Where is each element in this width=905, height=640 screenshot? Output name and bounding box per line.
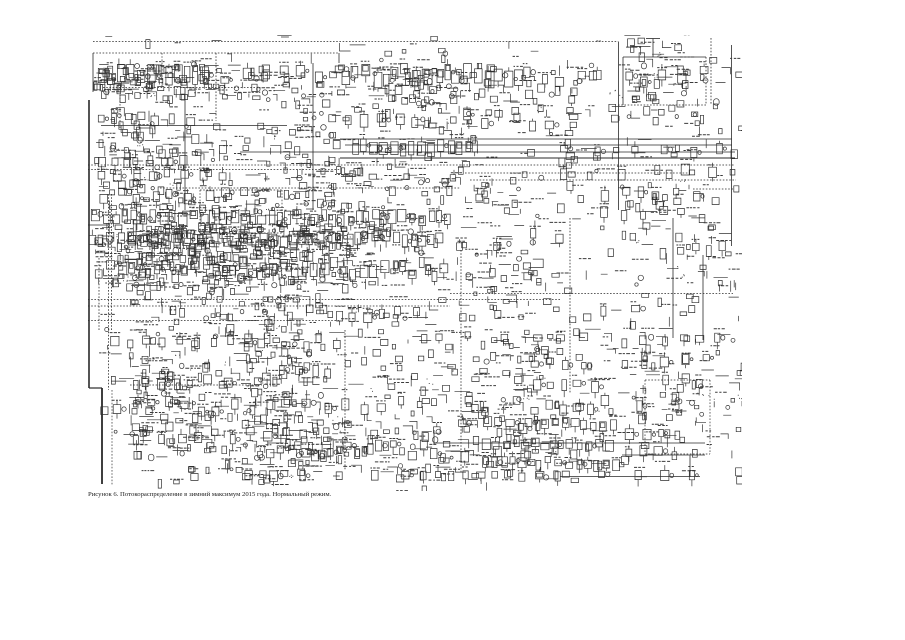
wire W5 riser [92, 53, 94, 92]
wire W24 bus [340, 157, 735, 159]
wire W28 feeder [693, 188, 734, 190]
wire W19 riser [731, 45, 733, 246]
wire W30 bus [88, 305, 450, 307]
wire W20 riser [710, 38, 712, 105]
wire W3 riser [119, 88, 121, 128]
wire W21 bus [340, 138, 732, 140]
wire W22 bus [345, 144, 732, 146]
wire W6 riser [338, 53, 340, 63]
wire W45 feeder [89, 387, 102, 389]
wire W15 riser [705, 57, 707, 105]
wire W18 feeder [618, 104, 706, 106]
wire W34 bus [160, 187, 460, 189]
value labels layer [94, 35, 755, 504]
wire W7 bus [103, 87, 258, 89]
wire W60 feeder [645, 453, 710, 455]
wire W26 bus [465, 172, 690, 174]
wire W47 riser [111, 390, 113, 485]
wire W40 feeder [200, 232, 282, 234]
wire W8 riser [215, 53, 217, 121]
wire W53 riser [344, 330, 346, 470]
connector stubs layer [92, 35, 754, 510]
wire W27 bus [470, 179, 736, 181]
wire W41 riser [199, 190, 201, 233]
wire W42 riser [281, 190, 283, 233]
wire W49 riser [569, 218, 571, 394]
wire W35 bus [88, 320, 340, 322]
wire W14 riser [622, 57, 624, 105]
wire W9 riser [312, 63, 314, 210]
wire W58 riser [644, 380, 646, 454]
wire W51 riser [702, 255, 704, 340]
wire W1 bus [93, 41, 618, 43]
wire W33 bus [88, 169, 340, 171]
wire W36 riser [108, 194, 110, 390]
wire W57 feeder [645, 379, 710, 381]
wire W4 riser [161, 53, 163, 88]
junction dots layer [111, 53, 742, 478]
wire W48 feeder [130, 384, 262, 386]
svg-text:Рисунок 6. Потокораспределение: Рисунок 6. Потокораспределение в зимний … [88, 491, 332, 498]
wire W12 riser [618, 42, 620, 211]
wire W31 bus [450, 293, 733, 295]
wire W43 riser [88, 100, 90, 388]
wire W56 riser [433, 430, 435, 444]
wire W32 bus [88, 164, 460, 166]
wire W13 feeder [623, 56, 706, 58]
wire W44 riser [98, 258, 100, 330]
wire W37 riser [111, 194, 113, 330]
wire W38 feeder [88, 224, 110, 226]
wire W16 feeder [646, 38, 660, 40]
wire W23 bus [240, 151, 735, 153]
wire W39 feeder [200, 189, 282, 191]
wire W2 bus [93, 52, 339, 54]
wire W54 bus [434, 442, 705, 444]
wire W17 riser [652, 39, 654, 58]
wire W61 feeder [560, 476, 700, 478]
generator circles layer [95, 51, 750, 480]
wire W52 riser [460, 250, 462, 473]
wire W11 riser [184, 88, 186, 210]
wire W46 riser [101, 388, 103, 484]
wire W10 bus [101, 125, 287, 127]
wire W62 riser [689, 456, 691, 478]
wire W29 bus [88, 299, 560, 301]
wire W59 riser [709, 380, 711, 454]
wire W55 feeder [622, 454, 705, 456]
wire W25 bus [460, 164, 735, 166]
wire W50 riser [672, 218, 674, 338]
substation boxes layer [89, 36, 748, 515]
